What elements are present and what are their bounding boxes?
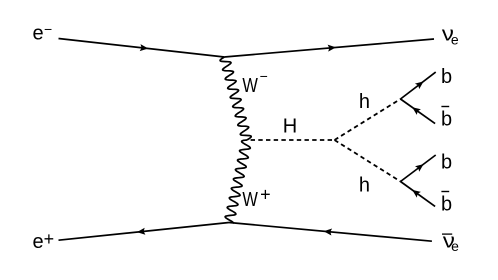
arrow on nubar_e line (324, 229, 333, 236)
svg-text:W: W (242, 189, 258, 211)
label nu_e (442, 24, 459, 48)
upper b quark line (401, 72, 436, 99)
svg-text:−: − (44, 21, 52, 37)
svg-text:b: b (441, 108, 452, 130)
svg-text:h: h (359, 174, 370, 196)
label bbar lower (441, 192, 452, 216)
electron line e- (59, 39, 225, 58)
lower bbar quark line (401, 182, 436, 207)
arrow on e- line (140, 44, 149, 51)
arrow on e+ line (137, 228, 146, 235)
svg-text:e: e (451, 238, 459, 254)
svg-text:e: e (451, 32, 459, 48)
arrow on nu_e line (328, 45, 336, 52)
upper bbar quark line (401, 99, 436, 124)
lower h dashed line (335, 140, 401, 182)
svg-text:b: b (441, 151, 452, 173)
svg-text:H: H (283, 115, 297, 137)
svg-text:b: b (441, 66, 452, 88)
label H (283, 115, 297, 137)
label e- (33, 21, 53, 45)
W+ boson wavy propagator (225, 140, 250, 224)
arrow on lower b line (415, 164, 424, 172)
label b lower (441, 151, 452, 173)
arrow on lower bbar line (412, 190, 421, 198)
svg-text:−: − (260, 68, 268, 84)
label bbar upper (441, 107, 452, 131)
label h lower (359, 174, 370, 196)
svg-text:W: W (242, 75, 258, 97)
svg-text:e: e (33, 231, 44, 253)
Higgs H dashed propagator (251, 139, 335, 141)
label nubar_e (442, 230, 459, 254)
svg-text:+: + (260, 185, 271, 205)
label W+ (242, 185, 270, 211)
antineutrino line nubar_e (229, 223, 432, 242)
arrow on upper bbar line (412, 107, 421, 115)
svg-text:b: b (441, 193, 452, 215)
upper h dashed line (335, 99, 401, 140)
W- boson wavy propagator (220, 57, 251, 140)
svg-text:e: e (33, 23, 44, 45)
label W- (242, 68, 267, 97)
svg-text:+: + (44, 229, 55, 249)
label e+ (33, 229, 55, 253)
positron line e+ (59, 223, 230, 241)
label b upper (441, 66, 452, 88)
arrow on upper b line (415, 81, 424, 89)
label h upper (359, 91, 370, 113)
neutrino line nu_e (224, 39, 434, 57)
svg-text:h: h (359, 91, 370, 113)
lower b quark line (401, 155, 436, 182)
